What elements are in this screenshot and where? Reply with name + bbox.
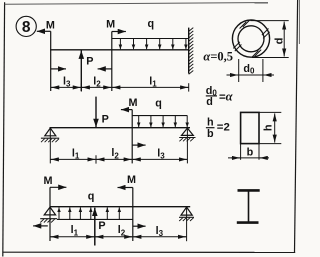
formula h/b = 2 (206, 117, 230, 140)
moment M4 riser (49, 187, 51, 241)
svg-text:l3: l3 (157, 147, 165, 160)
moment M1 riser (50, 31, 52, 91)
moment M3 bottom arrow (right) (132, 144, 145, 146)
svg-text:=α: =α (219, 89, 234, 103)
dimension d0 (227, 59, 275, 82)
labels beam 1 (46, 18, 157, 89)
svg-text:M: M (44, 175, 53, 187)
ext line left support (49, 129, 51, 164)
ring section outer circle (232, 20, 269, 57)
ring hatch NW (243, 20, 250, 27)
beam 2 line (50, 127, 191, 129)
moment M4 top arrow (right) (50, 186, 66, 188)
svg-text:l3: l3 (63, 75, 71, 88)
dimension line beam1 (51, 83, 189, 91)
svg-text:P: P (98, 220, 105, 232)
dimension line beam3 (50, 236, 187, 238)
beam 1 line (50, 49, 189, 51)
load q3 bottom line (57, 218, 133, 220)
load q2 top line (132, 115, 187, 117)
I-beam section (237, 190, 260, 222)
svg-text:b: b (247, 147, 254, 159)
left support beam3 ground line (40, 218, 57, 220)
border bottom (3, 251, 295, 253)
moment M1 bottom arrow (right) (51, 68, 66, 70)
right support beam3 ground line (179, 216, 194, 218)
moment M4 bottom arrow (left) (33, 225, 48, 227)
ring hatch NE (262, 29, 269, 36)
svg-text:l2: l2 (93, 76, 101, 89)
moment M3 riser (131, 110, 133, 164)
svg-text:P: P (102, 114, 109, 126)
svg-text:M: M (106, 19, 115, 31)
border right (295, 0, 298, 253)
dimension b (228, 144, 269, 160)
left pin support beam3 (44, 207, 55, 215)
svg-text:M: M (129, 97, 138, 109)
svg-text:d0: d0 (243, 63, 255, 76)
border top (5, 3, 268, 5)
svg-text:q: q (147, 18, 154, 30)
ext line right support (186, 129, 188, 164)
svg-text:l1: l1 (149, 75, 157, 88)
beam 3 line (50, 206, 191, 208)
svg-text:α=0,5: α=0,5 (203, 49, 233, 63)
svg-text:M: M (127, 174, 136, 186)
ring inner circle (238, 26, 264, 52)
svg-text:d: d (273, 38, 285, 45)
border right edge extra (298, 0, 300, 44)
dimension h (259, 112, 281, 143)
border left (3, 2, 5, 256)
labels beam 2 (72, 97, 165, 161)
svg-text:l1: l1 (72, 148, 80, 161)
moment M1 top arrow (left) (37, 30, 51, 32)
moment M2 bottom arrow (left) (98, 68, 112, 70)
variant circle 8 (16, 16, 36, 36)
load q1 top line (112, 38, 189, 40)
moment M3 top arrow (left) (121, 109, 132, 111)
wall (fixed support) (188, 28, 190, 74)
svg-text:l1: l1 (71, 224, 79, 237)
right pin support beam3 (181, 207, 192, 215)
moment M5 top arrow (left) (118, 187, 133, 189)
force P1 up arrow (80, 51, 82, 92)
moment M5 bottom arrow (right) (133, 225, 146, 227)
svg-text:b: b (207, 128, 214, 140)
moment M2 riser (111, 32, 113, 92)
moment M2 top arrow (right) (112, 31, 126, 33)
load q2 arrows (139, 116, 188, 128)
dimension line beam2 (50, 155, 187, 163)
labels beam 3 (44, 174, 164, 238)
svg-text:l2: l2 (118, 224, 126, 237)
svg-text:l2: l2 (111, 147, 119, 160)
svg-text:=2: =2 (217, 122, 230, 134)
svg-text:h: h (263, 124, 275, 131)
ring hatch SW (233, 42, 240, 49)
svg-text:q: q (155, 98, 162, 110)
ring hatch SE (252, 51, 259, 58)
force P3 up arrow (94, 208, 96, 246)
right pin support (182, 128, 194, 135)
rectangle section (241, 112, 259, 143)
ext line right support beam3 (186, 208, 188, 242)
svg-text:d: d (206, 96, 213, 108)
svg-text:h: h (207, 117, 214, 129)
dimension d (251, 21, 289, 58)
left support ground line (41, 137, 59, 139)
force P2 down arrow (95, 97, 97, 128)
svg-text:l3: l3 (156, 225, 164, 238)
svg-text:P: P (86, 56, 93, 68)
left pin support (45, 128, 56, 136)
svg-text:8: 8 (22, 19, 31, 36)
formula d0/d = alpha (206, 85, 234, 108)
svg-text:q: q (88, 191, 95, 203)
load q3 up arrows (59, 207, 119, 219)
svg-text:M: M (46, 20, 55, 32)
moment M5 riser (132, 188, 134, 242)
load q1 arrows (120, 39, 185, 50)
right support ground line (179, 137, 195, 139)
